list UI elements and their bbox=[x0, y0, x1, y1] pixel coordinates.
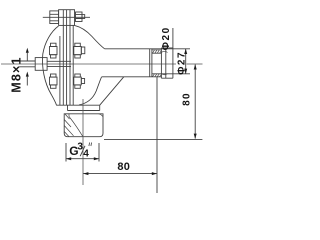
pipe cylinder end vertical bbox=[150, 49, 152, 77]
M8 boss block bbox=[35, 58, 47, 71]
svg-text:M8×1: M8×1 bbox=[9, 56, 23, 92]
phi20 extension line and hex right edge bbox=[172, 28, 174, 78]
plates and neck top edge bbox=[56, 104, 99, 106]
bottom face extension line bbox=[104, 139, 202, 141]
svg-text:Φ20: Φ20 bbox=[161, 26, 172, 50]
lower right bolt tip bbox=[81, 79, 84, 84]
thread root top line bbox=[152, 52, 162, 54]
top block bbox=[59, 10, 75, 26]
hex face extension line bbox=[156, 77, 158, 193]
lower right flange bolt bbox=[75, 74, 81, 77]
body lower right sweep bbox=[79, 77, 102, 105]
wire top section line bbox=[43, 16, 90, 18]
upper right bolt tip bbox=[81, 47, 85, 54]
upper left flange bolt bbox=[51, 43, 57, 46]
outlet transition diagonal bbox=[100, 77, 124, 105]
phi27 dimension line bbox=[185, 49, 187, 74]
M8 lower arrow bbox=[26, 72, 29, 77]
vertical 80 dimension line bbox=[194, 65, 196, 139]
M8 passage lines through flange bbox=[47, 61, 71, 66]
union nut thread hatch bbox=[64, 114, 83, 137]
hex chamfer arcs bbox=[161, 51, 167, 74]
thread root bottom line and phi27 bottom extension bbox=[152, 73, 190, 75]
flange plate verticals bbox=[60, 25, 73, 105]
body right bell arc bbox=[75, 25, 105, 48]
neck collar bbox=[68, 105, 100, 110]
M8 stub bbox=[19, 61, 35, 67]
M8 upper arrow bbox=[26, 48, 29, 53]
bottom 80 dimension line bbox=[83, 173, 157, 175]
pipe bottom edge bbox=[102, 76, 162, 78]
top right lock nut bbox=[76, 12, 83, 22]
top right nut tip bbox=[82, 15, 85, 19]
lower left flange bolt bbox=[51, 74, 57, 77]
phi27 arrowheads bbox=[184, 49, 187, 74]
bottom outlet centerline bbox=[82, 99, 84, 185]
union nut top right chamfer bbox=[99, 114, 103, 117]
G3/4 arrowheads bbox=[66, 157, 99, 160]
wire main horizontal centerline bbox=[1, 63, 176, 65]
bottom 80 arrowheads bbox=[83, 172, 157, 175]
top block inner verticals bbox=[63, 10, 70, 26]
G3/4 extension lines bbox=[66, 143, 99, 162]
union nut body bbox=[64, 114, 103, 137]
svg-text:80: 80 bbox=[117, 161, 130, 173]
G3/4 dimension line bbox=[66, 158, 99, 160]
body left bell arc bbox=[42, 26, 58, 105]
vertical 80 arrowheads bbox=[194, 64, 197, 139]
pipe top edge and phi27 top extension bbox=[105, 48, 190, 50]
thread hatch bottom bbox=[153, 74, 162, 77]
upper right flange bolt bbox=[75, 43, 81, 46]
thread hatch top bbox=[152, 50, 161, 53]
hex nut on pipe bbox=[161, 48, 173, 78]
svg-text:4: 4 bbox=[83, 148, 89, 159]
svg-text:80: 80 bbox=[182, 92, 193, 106]
label inch double prime bbox=[89, 143, 92, 147]
top left lock nut bbox=[50, 11, 59, 24]
